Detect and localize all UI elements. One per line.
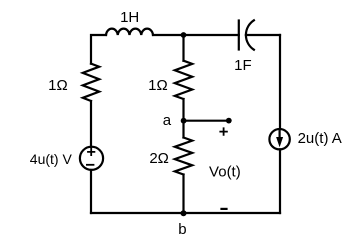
wire: top right horizontal bbox=[246, 34, 280, 36]
wire: output tap from node a bbox=[184, 120, 229, 122]
current source I1: arrow head bbox=[276, 137, 283, 147]
wire: right branch lower bbox=[279, 149, 281, 213]
label: output plus sign bbox=[220, 128, 227, 135]
label: output minus sign bbox=[222, 208, 227, 210]
svg-text:b: b bbox=[178, 221, 186, 238]
node: output terminal dot bbox=[226, 118, 232, 124]
resistor R3 (2 ohm) bbox=[175, 138, 192, 175]
voltage source V1: plus sign bbox=[88, 149, 94, 155]
svg-text:1Ω: 1Ω bbox=[148, 77, 168, 94]
wire: middle branch bottom bbox=[182, 175, 184, 214]
resistor R2 (middle 1 ohm) bbox=[175, 61, 192, 99]
wire: middle branch between resistors bbox=[182, 99, 184, 138]
current source I1: arrow shaft bbox=[279, 131, 281, 140]
wire: bottom horizontal bbox=[91, 212, 280, 214]
current source I1: circle bbox=[269, 129, 289, 149]
svg-text:1Ω: 1Ω bbox=[48, 77, 68, 94]
svg-text:1F: 1F bbox=[234, 57, 252, 74]
wire: left branch lower bbox=[90, 170, 92, 213]
svg-text:1H: 1H bbox=[120, 9, 139, 26]
wire: middle branch top bbox=[182, 35, 184, 61]
svg-text:2Ω: 2Ω bbox=[149, 150, 169, 167]
wire: right branch upper bbox=[279, 35, 281, 129]
voltage source V1: minus sign bbox=[87, 164, 94, 166]
inductor L1 bbox=[106, 29, 153, 35]
svg-text:a: a bbox=[163, 112, 172, 129]
capacitor C1: curved right plate bbox=[246, 20, 254, 49]
node b: junction dot bbox=[181, 210, 187, 216]
svg-text:4u(t) V: 4u(t) V bbox=[30, 151, 73, 167]
svg-text:2u(t) A: 2u(t) A bbox=[298, 130, 342, 147]
capacitor C1: straight left plate bbox=[238, 21, 240, 50]
resistor R1 (left 1 ohm) bbox=[83, 64, 99, 101]
wire: top middle horizontal bbox=[153, 34, 239, 36]
node: top junction dot bbox=[181, 32, 187, 38]
svg-text:Vo(t): Vo(t) bbox=[209, 163, 241, 180]
wire: top-left corner (left branch to inductor) bbox=[91, 35, 106, 64]
wire: left branch middle bbox=[90, 101, 92, 147]
node a: junction dot bbox=[181, 118, 187, 124]
voltage source V1: circle bbox=[80, 147, 103, 170]
